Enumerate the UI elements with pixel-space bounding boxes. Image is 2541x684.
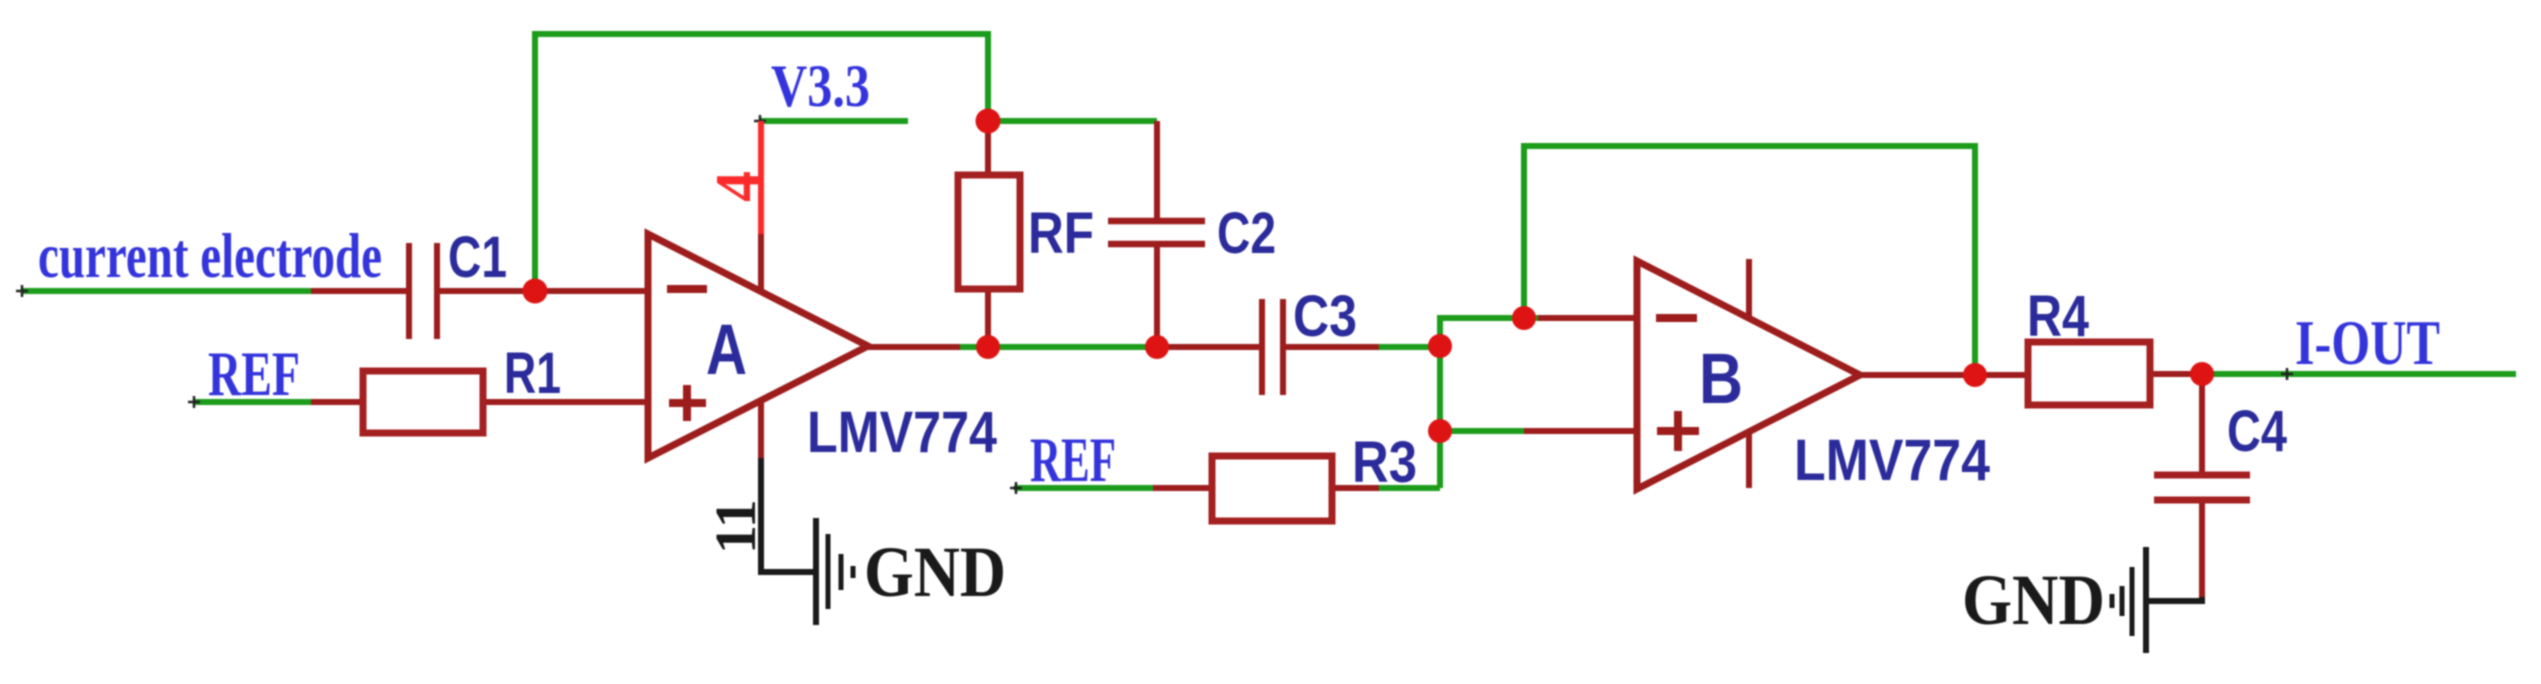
wire current electrode net xyxy=(22,288,311,294)
svg-text:RF: RF xyxy=(1028,201,1094,266)
op-amp B minus mark xyxy=(1656,314,1697,322)
resistor R4 xyxy=(2028,342,2150,405)
op-amp A output stub xyxy=(868,344,960,350)
svg-text:V3.3: V3.3 xyxy=(771,53,870,119)
wire C2 leads xyxy=(1154,121,1160,347)
svg-text:C2: C2 xyxy=(1217,201,1276,266)
svg-text:I-OUT: I-OUT xyxy=(2295,307,2440,378)
wire C3 to B input node xyxy=(1379,344,1440,350)
capacitor C1 xyxy=(409,243,437,339)
node junction feedback/RF top xyxy=(976,109,1001,134)
svg-text:REF: REF xyxy=(208,338,300,409)
op-amp A pin 11 stub xyxy=(758,401,764,458)
op-amp B plus mark xyxy=(1657,411,1699,451)
wire C1 leads xyxy=(311,288,648,294)
svg-text:current electrode: current electrode xyxy=(38,220,382,291)
svg-text:GND: GND xyxy=(1962,560,2105,640)
svg-text:A: A xyxy=(706,311,747,390)
svg-text:REF: REF xyxy=(1030,424,1116,495)
node junction feedback/B minus xyxy=(1512,306,1536,330)
wire B input vertical bus xyxy=(1440,318,1538,488)
wire RF leads xyxy=(985,121,991,347)
node current electrode port xyxy=(16,285,28,297)
node junction B output/feedback xyxy=(1963,363,1987,387)
node I-OUT port xyxy=(2281,368,2293,380)
node REF mid port xyxy=(1010,482,1022,494)
wire pin 11 to ground xyxy=(758,458,818,572)
capacitor C4 xyxy=(2154,475,2250,500)
wire opamp A output net xyxy=(960,344,1157,350)
svg-text:LMV774: LMV774 xyxy=(807,400,997,465)
svg-text:B: B xyxy=(1699,340,1743,419)
node V3.3 port xyxy=(754,115,766,127)
ground symbol left xyxy=(816,518,853,625)
ground symbol right xyxy=(2112,547,2146,653)
resistor R3 xyxy=(1212,456,1332,521)
node junction R3/B plus xyxy=(1428,419,1452,443)
svg-text:R4: R4 xyxy=(2027,284,2089,349)
svg-text:4: 4 xyxy=(704,171,772,202)
node junction C2 bottom/output xyxy=(1145,335,1169,359)
wire C1 to feedback top net xyxy=(535,34,988,291)
wire R1 leads xyxy=(311,399,648,405)
wire B plus input xyxy=(1440,428,1524,434)
op-amp A pin 4 stub xyxy=(758,234,764,291)
op-amp A plus mark xyxy=(669,385,706,421)
op-amp B top power stub xyxy=(1746,259,1752,318)
svg-text:11: 11 xyxy=(703,499,768,554)
wire C4 leads xyxy=(2199,374,2205,598)
node junction R4/C4/I-OUT xyxy=(2190,362,2214,386)
wire R3 leads xyxy=(1153,485,1379,491)
svg-text:R1: R1 xyxy=(504,341,561,406)
resistor R1 xyxy=(363,371,483,433)
wire I-OUT net xyxy=(2214,371,2516,377)
svg-text:R3: R3 xyxy=(1352,430,1417,495)
svg-text:LMV774: LMV774 xyxy=(1794,428,1990,493)
resistor RF xyxy=(958,175,1020,289)
capacitor C3 xyxy=(1262,299,1283,395)
op-amp B output stub xyxy=(1860,372,1975,378)
wire REF left net xyxy=(194,399,311,405)
svg-text:C3: C3 xyxy=(1293,284,1357,349)
op-amp U1B triangle xyxy=(1637,261,1860,489)
op-amp A minus mark xyxy=(667,285,707,293)
wire pin 4 to V3.3 xyxy=(758,121,764,234)
op-amp B bottom power stub xyxy=(1746,432,1752,488)
op-amp B plus input stub xyxy=(1524,428,1637,434)
wire V3.3 power bar xyxy=(760,118,908,124)
wire R3 net xyxy=(1014,485,1440,491)
wire opamp B feedback net xyxy=(1524,146,1975,375)
wire R4 leads xyxy=(1975,374,2214,375)
node junction C1/feedback xyxy=(523,279,548,304)
wire C3 leads xyxy=(1157,344,1379,350)
svg-text:C1: C1 xyxy=(448,225,507,290)
op-amp U1A triangle xyxy=(648,234,868,458)
wire C4 to ground right xyxy=(2146,597,2202,601)
svg-text:GND: GND xyxy=(864,532,1006,612)
capacitor C2 xyxy=(1108,221,1205,244)
svg-text:C4: C4 xyxy=(2227,399,2287,464)
node junction RF bottom/output xyxy=(976,335,1000,359)
node junction C3/B input xyxy=(1428,334,1452,358)
node REF left port xyxy=(188,396,200,408)
wire RF top to C2 top xyxy=(988,118,1157,124)
op-amp B minus input stub xyxy=(1538,315,1637,321)
